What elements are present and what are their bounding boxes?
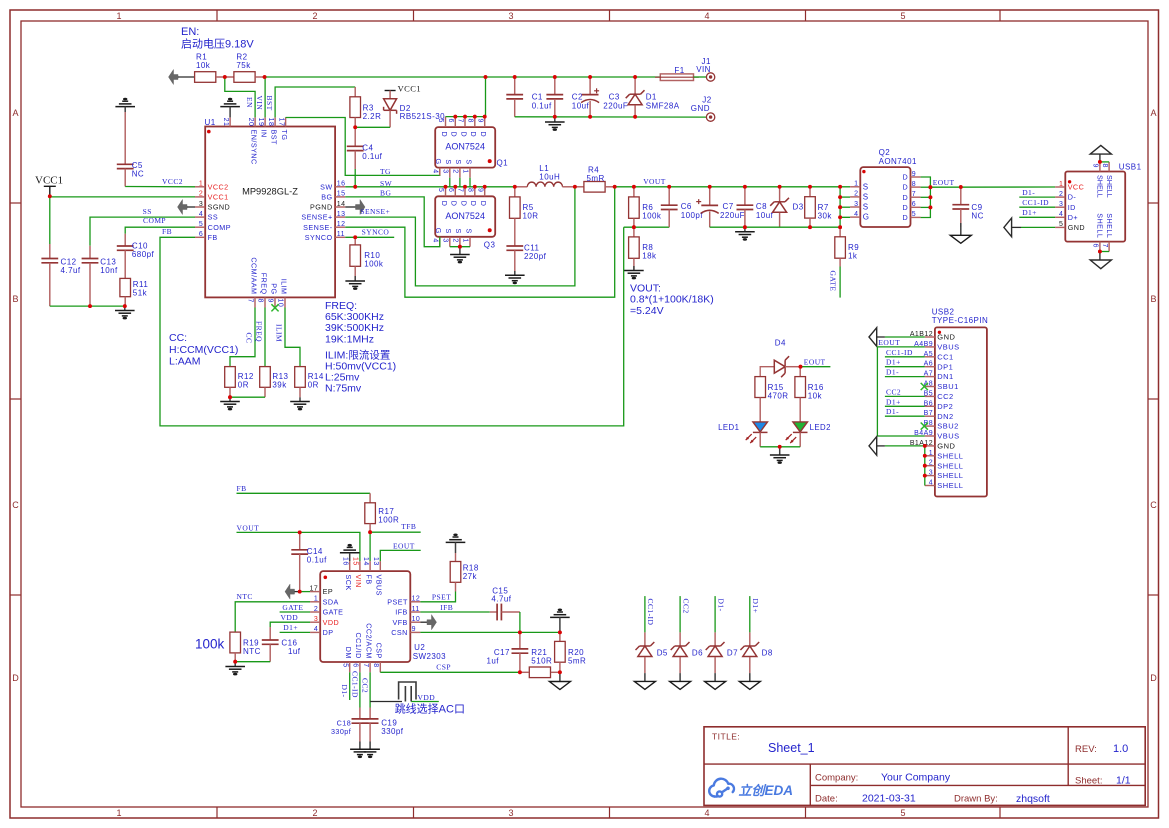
svg-text:A: A: [12, 108, 18, 118]
resistor R18: [450, 553, 479, 582]
svg-text:8: 8: [257, 299, 264, 303]
svg-text:GATE: GATE: [323, 608, 344, 617]
svg-text:2: 2: [312, 11, 317, 21]
svg-text:3: 3: [442, 169, 449, 173]
svg-text:D: D: [450, 132, 459, 138]
svg-text:27k: 27k: [463, 572, 478, 581]
net label TG: [380, 167, 391, 176]
svg-text:NC: NC: [971, 212, 983, 221]
jumper header symbol: [399, 682, 416, 702]
wire D2 to R3 bottom: [355, 118, 390, 128]
svg-text:6: 6: [447, 119, 454, 123]
capacitor C8: [737, 187, 774, 227]
ground above U2 pin16: [340, 544, 360, 561]
Q1 bottom pins G,S 4-1: [432, 159, 474, 187]
annotation 100k: [195, 637, 225, 652]
wire VIN drop to Q1 drains: [485, 77, 487, 117]
net label D1- USB2 B7: [886, 407, 899, 416]
svg-text:VIN: VIN: [255, 96, 264, 111]
resistor R9: [835, 227, 859, 260]
svg-text:17: 17: [310, 585, 319, 592]
svg-text:S: S: [444, 159, 453, 164]
net label CC2 vertical: [681, 599, 690, 614]
svg-text:FREQ: FREQ: [255, 321, 264, 342]
node dot R12 bottom: [228, 395, 232, 399]
node dots CSP: [518, 670, 562, 674]
frame row ticks: [10, 203, 1159, 595]
ground arrow at U1 pin14 PGND: [345, 200, 365, 215]
diode D3 tvs: [770, 187, 804, 227]
inductor L1: [515, 164, 575, 187]
connector USB1 body: [1065, 163, 1141, 242]
svg-text:SW: SW: [320, 182, 332, 191]
svg-text:VDD: VDD: [281, 613, 299, 622]
wire EN to pin20: [225, 77, 255, 117]
wire ILIM net pin10: [285, 308, 300, 367]
svg-text:D-: D-: [1068, 193, 1077, 202]
capacitor C1: [506, 77, 552, 117]
svg-text:SHELL: SHELL: [937, 471, 963, 480]
svg-text:GND: GND: [937, 442, 955, 451]
svg-text:A7: A7: [924, 371, 933, 378]
svg-text:9: 9: [1092, 164, 1099, 168]
svg-text:LED2: LED2: [810, 423, 831, 432]
ground under R8: [624, 258, 644, 279]
resistor R4 5mR: [575, 166, 615, 193]
net label VIN vertical: [255, 96, 264, 111]
svg-text:SENSE+: SENSE+: [301, 213, 332, 222]
svg-text:8: 8: [467, 188, 474, 192]
svg-text:5mR: 5mR: [568, 657, 586, 666]
svg-text:D: D: [459, 201, 468, 207]
svg-text:IFB: IFB: [395, 608, 408, 617]
svg-text:3: 3: [508, 808, 513, 818]
svg-text:VOUT:: VOUT:: [630, 283, 661, 295]
net label D1+ USB1: [1022, 208, 1037, 217]
svg-text:39k: 39k: [272, 380, 287, 389]
svg-text:ILIM:限流设置: ILIM:限流设置: [325, 348, 390, 361]
svg-text:D: D: [440, 201, 449, 207]
svg-text:3: 3: [929, 470, 933, 477]
svg-text:2: 2: [314, 606, 318, 613]
USB2 pins A1B12-4: [910, 331, 963, 490]
svg-text:Q1: Q1: [497, 158, 509, 167]
svg-text:5: 5: [437, 188, 444, 192]
net label EOUT at Q2: [933, 178, 955, 187]
wire CC2 down to C19: [369, 672, 371, 707]
ground under LEDs: [770, 447, 790, 464]
ground under C11: [505, 271, 525, 284]
net label GATE at U2: [282, 603, 303, 612]
svg-text:G: G: [863, 213, 870, 222]
USB1 left pins 1-5: [1055, 181, 1085, 232]
net label CC2 USB2: [886, 387, 901, 396]
svg-text:EOUT: EOUT: [933, 178, 955, 187]
svg-text:Drawn By:: Drawn By:: [954, 794, 998, 805]
wire SENSE+ loop: [345, 187, 575, 286]
svg-text:VCC1: VCC1: [398, 83, 422, 93]
resistor R20: [555, 632, 587, 672]
svg-text:CC2: CC2: [361, 678, 370, 693]
resistor R8: [629, 227, 657, 260]
annotation D4 label: [775, 339, 786, 348]
svg-text:15: 15: [352, 557, 359, 566]
svg-text:SMF28A: SMF28A: [646, 102, 680, 111]
wire VIN to pin19: [264, 77, 266, 117]
capacitor C5: [117, 112, 144, 187]
svg-text:SHELL: SHELL: [1096, 213, 1105, 238]
svg-text:D1+: D1+: [1022, 208, 1037, 217]
wire ground rail under C12 C13 R11: [50, 305, 125, 307]
node D1 top: [633, 75, 637, 79]
capacitor C3 polarized: [581, 77, 628, 117]
svg-text:A: A: [1150, 108, 1156, 118]
svg-text:D: D: [1150, 673, 1157, 683]
svg-text:D1-: D1-: [340, 685, 349, 698]
wire GATE net down: [839, 258, 841, 297]
transistor Q1 AON7524 body: [435, 127, 508, 168]
net label FB at U1: [162, 227, 172, 236]
frame column numbers: [116, 11, 905, 818]
svg-text:220uF: 220uF: [720, 211, 745, 220]
svg-text:D1-: D1-: [886, 407, 899, 416]
svg-text:VDD: VDD: [323, 618, 340, 627]
svg-text:SW: SW: [380, 179, 393, 188]
svg-text:7: 7: [457, 119, 464, 123]
annotation FREQ block: [325, 300, 396, 395]
annotation EN block: [181, 26, 254, 51]
svg-text:2: 2: [1059, 191, 1063, 198]
svg-text:FB: FB: [237, 484, 247, 493]
svg-text:S: S: [863, 182, 869, 191]
ic U1 MP9928GL-Z body: [205, 118, 336, 297]
svg-text:9: 9: [412, 626, 416, 633]
net label VDD at jumper: [418, 693, 436, 702]
node dot R19 bottom: [233, 660, 237, 664]
svg-text:B7: B7: [924, 410, 933, 417]
svg-text:5: 5: [900, 11, 905, 21]
svg-text:VCC1: VCC1: [208, 193, 229, 202]
svg-text:16: 16: [341, 557, 348, 566]
net label CC1-ID vertical: [646, 599, 655, 626]
svg-text:3: 3: [854, 201, 858, 208]
net label IFB: [440, 603, 453, 612]
svg-text:B5: B5: [924, 390, 933, 397]
svg-text:GATE: GATE: [829, 271, 838, 292]
port arrow GND A1B12: [869, 328, 877, 347]
wire TG pin17 route: [286, 117, 440, 175]
svg-text:6: 6: [199, 231, 203, 238]
USB1 top pins 9,8: [1092, 162, 1110, 172]
net label D1+ vertical: [751, 599, 760, 614]
resistor R7: [805, 187, 833, 227]
svg-text:CC1-ID: CC1-ID: [886, 348, 913, 357]
transistor Q2 AON7401 body: [860, 148, 917, 227]
capacitor C19: [362, 708, 404, 742]
svg-text:BG: BG: [380, 189, 391, 198]
port arrow GND USB1: [1004, 218, 1012, 237]
resistor R6: [629, 187, 662, 227]
wire CC1-ID net stub: [644, 596, 646, 632]
svg-text:G: G: [434, 159, 443, 165]
svg-text:6: 6: [352, 663, 359, 667]
capacitor C14: [291, 532, 327, 591]
svg-text:D4: D4: [775, 339, 786, 348]
svg-text:C1: C1: [532, 93, 543, 102]
svg-text:B: B: [1150, 294, 1156, 304]
svg-text:MP9928GL-Z: MP9928GL-Z: [242, 187, 298, 197]
svg-text:EP: EP: [323, 587, 334, 596]
svg-text:8: 8: [467, 119, 474, 123]
svg-text:5mR: 5mR: [587, 174, 605, 183]
wire LED cathodes tie: [760, 446, 800, 448]
resistor R10: [350, 237, 384, 268]
ground under R12: [220, 397, 240, 410]
node junction C9: [959, 185, 963, 189]
wire SYNCO stub: [345, 236, 394, 238]
svg-text:C7: C7: [723, 202, 734, 211]
U1 bottom pins 7-10: [247, 257, 289, 307]
svg-text:U1: U1: [205, 118, 216, 127]
svg-text:9: 9: [476, 119, 483, 123]
wire VDD stub at jumper: [411, 701, 439, 703]
svg-text:GND: GND: [691, 104, 710, 113]
net label PSET: [432, 593, 451, 602]
wire Q1 drain rail: [446, 116, 486, 118]
diode D1 SMF28A tvs: [626, 77, 680, 117]
svg-text:D: D: [903, 183, 909, 192]
Q2 right pins D 9-5: [903, 171, 921, 222]
ground triangle under D5: [634, 673, 655, 689]
svg-text:FB: FB: [364, 575, 373, 585]
svg-text:C: C: [12, 500, 19, 510]
svg-text:SYNCO: SYNCO: [362, 228, 390, 237]
net label VCC2: [162, 177, 183, 186]
node VIN junction at R2: [263, 75, 267, 79]
node C2 top: [553, 75, 557, 79]
svg-text:SENSE-: SENSE-: [303, 223, 333, 232]
svg-text:D8: D8: [762, 648, 773, 657]
svg-text:4: 4: [704, 808, 709, 818]
ground above R18: [446, 534, 466, 554]
svg-text:4: 4: [432, 169, 439, 173]
net label D1- USB2 A7: [886, 368, 899, 377]
node junction TFB: [368, 530, 372, 534]
svg-text:启动电压9.18V: 启动电压9.18V: [181, 38, 254, 51]
U1 top pins 21,20-17: [222, 117, 289, 164]
wire IFB to C15: [420, 611, 489, 613]
svg-text:S: S: [444, 229, 453, 234]
ground triangle under C9: [950, 223, 971, 243]
net label CC vertical: [245, 333, 254, 344]
capacitor C15: [490, 587, 520, 621]
svg-text:NTC: NTC: [243, 647, 261, 656]
ground under R14: [290, 387, 310, 410]
net label SW: [380, 179, 393, 188]
net label SS: [143, 207, 152, 216]
svg-text:8: 8: [912, 181, 916, 188]
wire Q3 source tie: [450, 246, 470, 248]
wire FB to R17: [237, 492, 371, 494]
wire EOUT at U2 pin13: [380, 550, 420, 561]
wire VIN rail top: [265, 76, 661, 78]
svg-text:510R: 510R: [531, 657, 552, 666]
wire D1- net stub: [714, 596, 716, 632]
svg-text:S: S: [863, 193, 869, 202]
svg-text:14: 14: [337, 201, 346, 208]
ground arrow at U1 pin3 SGND: [178, 200, 196, 215]
svg-text:100R: 100R: [378, 516, 399, 525]
svg-text:GND: GND: [937, 333, 955, 342]
svg-text:3: 3: [314, 616, 318, 623]
svg-text:N:75mv: N:75mv: [325, 383, 362, 395]
svg-text:3: 3: [508, 11, 513, 21]
svg-text:EN/SYNC: EN/SYNC: [249, 130, 258, 165]
U2 top pins 16-13: [341, 557, 383, 596]
svg-text:15: 15: [337, 191, 346, 198]
svg-text:330pf: 330pf: [381, 727, 404, 736]
no-connect X on U1 pin9 PG: [271, 304, 278, 311]
node dots Q2 drain tie: [929, 185, 933, 209]
svg-text:SBU2: SBU2: [937, 422, 958, 431]
svg-text:FREQ: FREQ: [259, 273, 268, 295]
svg-text:12: 12: [412, 596, 421, 603]
svg-text:DP: DP: [323, 628, 334, 637]
wire CC net pin7: [230, 308, 255, 367]
diode D4 zener: [760, 356, 800, 377]
svg-text:VCC2: VCC2: [208, 182, 229, 191]
net label COMP: [143, 216, 166, 225]
wire DP1 row: [885, 366, 925, 368]
capacitor C12: [41, 196, 80, 306]
svg-text:=5.24V: =5.24V: [630, 305, 664, 317]
svg-text:EOUT: EOUT: [804, 358, 826, 367]
wire CC2 net stub: [679, 596, 681, 632]
net label VOUT at U2: [237, 524, 260, 533]
node junction L1-R4: [573, 185, 577, 189]
svg-text:VCC2: VCC2: [162, 177, 183, 186]
svg-text:D1-: D1-: [1022, 188, 1035, 197]
svg-text:100k: 100k: [364, 260, 384, 269]
wire GND rail top filter: [515, 116, 707, 118]
Q1 top pins D 5-9: [437, 117, 488, 138]
svg-text:SS: SS: [208, 213, 219, 222]
svg-text:1: 1: [199, 181, 203, 188]
svg-text:1: 1: [462, 169, 469, 173]
node junction R3 C4: [353, 125, 357, 129]
svg-text:SGND: SGND: [208, 203, 231, 212]
resistor R16: [795, 367, 824, 401]
svg-text:C: C: [1150, 500, 1157, 510]
capacitor C4: [347, 127, 383, 187]
svg-text:DP1: DP1: [937, 362, 953, 371]
svg-text:4.7uf: 4.7uf: [61, 266, 81, 275]
wire BST pin18 to R3: [275, 87, 355, 117]
node junction R6 R8: [632, 225, 636, 229]
resistor R5: [510, 187, 539, 221]
svg-text:4: 4: [929, 480, 933, 487]
wire Q2 gate node: [840, 187, 850, 227]
svg-text:D+: D+: [1068, 213, 1078, 222]
wire GND A1B12: [875, 336, 925, 338]
svg-text:10R: 10R: [523, 211, 539, 220]
svg-text:VBUS: VBUS: [937, 343, 959, 352]
svg-text:CC1/ID: CC1/ID: [354, 633, 363, 659]
svg-text:VDD: VDD: [418, 693, 436, 702]
svg-text:D: D: [903, 173, 909, 182]
svg-text:1.0: 1.0: [1113, 743, 1128, 755]
no-connect X SBU2: [921, 423, 928, 430]
resistor R12: [225, 367, 254, 398]
svg-text:3: 3: [199, 201, 203, 208]
frame row letters: [12, 108, 1157, 683]
svg-text:4: 4: [854, 211, 858, 218]
svg-text:ILIM: ILIM: [274, 324, 283, 342]
svg-text:1: 1: [116, 11, 121, 21]
svg-text:CC1-ID: CC1-ID: [646, 599, 655, 626]
svg-text:1: 1: [314, 596, 318, 603]
wire DP2 row: [885, 405, 925, 407]
svg-text:D1+: D1+: [283, 623, 298, 632]
svg-text:SHELL: SHELL: [1096, 175, 1105, 198]
svg-text:GND: GND: [1068, 223, 1085, 232]
capacitor C2: [546, 77, 589, 117]
svg-text:100k: 100k: [195, 637, 225, 652]
wire TFB to U2 pin14: [369, 532, 371, 561]
node junction R10 top: [353, 235, 357, 239]
svg-text:16: 16: [337, 181, 346, 188]
wire TFB stub: [370, 531, 421, 533]
svg-text:IFB: IFB: [440, 603, 453, 612]
svg-text:CC1-ID: CC1-ID: [350, 671, 359, 698]
wire GND B1A12: [875, 445, 925, 447]
wire GATE stub at U2: [280, 611, 311, 613]
svg-text:1: 1: [1059, 181, 1063, 188]
wire F1 to J1: [694, 76, 707, 78]
fuse F1: [655, 66, 699, 81]
svg-text:CC2: CC2: [681, 599, 690, 614]
svg-text:S: S: [454, 159, 463, 164]
svg-text:Q3: Q3: [484, 241, 496, 250]
svg-text:S: S: [464, 159, 473, 164]
wire NTC net: [235, 602, 310, 632]
svg-text:1: 1: [854, 181, 858, 188]
svg-text:5: 5: [341, 663, 348, 667]
svg-text:EN: EN: [245, 97, 254, 108]
svg-text:D: D: [469, 201, 478, 207]
wire R19 C16 tie: [235, 661, 270, 663]
led LED1: [718, 398, 767, 447]
wire EOUT to USB1: [930, 186, 1055, 188]
svg-text:SHELL: SHELL: [937, 481, 963, 490]
node junction R4 out: [613, 185, 617, 189]
svg-text:8: 8: [1101, 164, 1108, 168]
svg-text:SENSE+: SENSE+: [360, 207, 390, 216]
svg-text:21: 21: [222, 118, 229, 127]
svg-text:0R: 0R: [308, 380, 319, 389]
svg-text:17: 17: [277, 118, 284, 127]
ground under Q3: [450, 247, 470, 264]
svg-text:11: 11: [337, 231, 345, 238]
svg-text:GATE: GATE: [282, 603, 303, 612]
net label BST vertical: [265, 96, 274, 111]
svg-text:7: 7: [362, 663, 369, 667]
svg-text:4: 4: [1059, 211, 1063, 218]
wire FB net long loop: [160, 227, 624, 426]
svg-text:C6: C6: [681, 202, 692, 211]
svg-text:C2: C2: [572, 93, 583, 102]
port arrow up USB1: [1090, 145, 1111, 162]
